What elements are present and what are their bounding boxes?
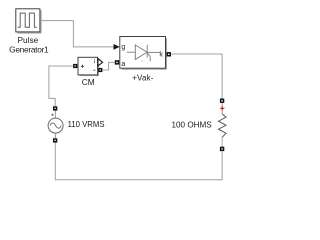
label Pulse Generator1 [9, 35, 49, 54]
svg-text:CM: CM [82, 77, 95, 87]
plus polarity marker [51, 114, 53, 116]
port square resistor top [220, 99, 224, 103]
port square k [167, 52, 171, 56]
circle body [48, 118, 63, 133]
port square source bottom [53, 138, 57, 142]
wire resistor bottom to source bottom [55, 143, 222, 180]
i output label [94, 61, 96, 63]
minus sign [93, 69, 95, 71]
zigzag [218, 114, 226, 137]
svg-text:110 VRMS: 110 VRMS [68, 119, 105, 129]
unconnected output arrow i [98, 59, 103, 66]
svg-text:+Vak-: +Vak- [132, 74, 154, 83]
red polarity plus [220, 106, 224, 110]
svg-text:a: a [121, 61, 125, 68]
svg-text:100 OHMS: 100 OHMS [172, 119, 213, 129]
top internal stub [221, 103, 223, 114]
wire source plus to CM plus [49, 66, 73, 106]
arrowhead into g port [114, 44, 120, 50]
svg-text:k: k [159, 52, 163, 59]
sine wave [50, 123, 61, 128]
thyristor symbol [127, 45, 160, 62]
CM current measurement block [78, 57, 103, 75]
svg-text:g: g [121, 44, 125, 51]
resistor R 100 OHMS [218, 103, 226, 147]
wire pulse generator to thyristor gate [40, 21, 114, 47]
pulse generator block Pulse Generator1 [16, 9, 42, 33]
port square a [115, 60, 119, 64]
bottom internal stub [221, 137, 223, 146]
wire CM minus to thyristor a [102, 62, 115, 70]
thyristor block U1 [120, 37, 167, 70]
port square CM + [73, 64, 77, 68]
svg-text:Generator1: Generator1 [9, 44, 49, 54]
bottom lead [54, 133, 56, 138]
plus sign [81, 65, 84, 68]
top lead [54, 111, 56, 119]
wire thyristor k to resistor top [171, 54, 222, 98]
port square resistor bottom [220, 147, 224, 151]
port square source top [53, 106, 57, 110]
AC voltage source V1 [48, 111, 63, 139]
port square CM - [98, 68, 102, 72]
